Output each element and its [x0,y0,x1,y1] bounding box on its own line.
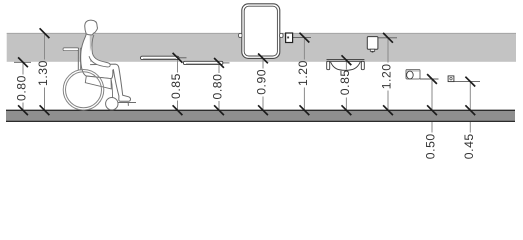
paper roll [407,71,414,79]
extension lines at fixtures [14,38,480,82]
dim line 1.20 dispenser [387,38,389,110]
big wheel [63,70,104,111]
svg-text:1.20: 1.20 [296,60,310,86]
dim line 1.20 switch [303,38,305,110]
footrest plate [117,102,136,104]
dispenser nozzle [370,49,374,51]
svg-text:0.50: 0.50 [424,133,438,159]
svg-text:0.80: 0.80 [211,74,225,100]
tick dispenser bottom [383,105,393,115]
tick button bottom [465,105,475,115]
svg-text:0.45: 0.45 [462,133,476,159]
dim line 0.80 left [22,62,24,110]
extension line band bottom at 0.80 [14,61,31,63]
floor slab [6,110,515,122]
extension line button [454,81,480,83]
extension line dispenser [378,37,397,39]
dimension labels (rotated) [15,60,476,159]
tick basin bottom [342,105,352,115]
tick paper holder top [427,74,437,84]
mirror U1 [239,4,283,59]
tick 0.80 top [18,57,28,67]
dim line 0.45 button [469,82,471,133]
tick switch top [300,33,310,43]
dim line 0.50 paper holder [431,79,433,133]
dim line 0.90 mirror [262,58,264,110]
arm [89,35,110,67]
grab bar 2 (0.80) [183,61,223,64]
extension line grab bar 1 [179,57,187,59]
tick bar2 bottom [214,105,224,115]
reach-zone band [7,33,516,62]
svg-text:0.85: 0.85 [338,69,352,95]
seat sling quad [85,76,111,89]
tick basin top [342,55,352,65]
dim line 1.30 left [44,33,46,110]
wheelchair user [63,20,136,110]
basin bowl [331,62,361,71]
svg-text:0.80: 0.80 [15,75,29,101]
tick 1.30 top [40,28,50,38]
dim line 0.85 washbasin [345,60,347,110]
tick mirror top [258,54,268,64]
seat front edge + caster fork [111,79,113,98]
dimension lines (gray verticals) [23,33,470,132]
svg-text:0.90: 0.90 [255,69,269,95]
body silhouette [80,20,130,101]
svg-text:1.20: 1.20 [380,63,394,89]
mirror clip left [239,33,242,37]
svg-text:1.30: 1.30 [36,60,50,86]
svg-text:0.85: 0.85 [169,73,183,99]
basin bracket left [327,61,330,69]
tick switch bottom [300,105,310,115]
extension line grab bar 2 [223,62,230,64]
basin rim [327,58,365,60]
light switch (1.20) [286,33,293,43]
tick dispenser top [383,33,393,43]
extension line switch [293,37,311,39]
toilet paper holder (0.50) [406,70,420,80]
extension line paper holder [420,78,439,80]
mirror clip right [280,33,283,37]
footrest bracket [127,103,129,106]
dim line 0.85 grab bar 1 [177,58,179,110]
push handle [63,48,79,51]
backrest post [78,48,80,71]
washbasin (0.85) [327,59,365,70]
dim line 0.80 grab bar 2 [218,63,220,110]
soap dispenser (1.20) [367,37,378,53]
tick 1.30 bottom [40,105,50,115]
basin bracket right [361,61,364,69]
grab bar 1 (0.85) [140,56,179,59]
band top edge line [7,32,516,34]
tick mirror bottom [258,105,268,115]
tick button top [465,77,475,87]
flush button (0.45) [448,76,454,82]
tick bar1 bottom [173,105,183,115]
tick 0.80 bottom [18,105,28,115]
caster wheel [106,98,118,110]
dimension ticks (45-degree slashes) [18,28,475,115]
tick paper holder bottom [427,105,437,115]
tick bar2 top [214,58,224,68]
tick bar1 top [173,53,183,63]
